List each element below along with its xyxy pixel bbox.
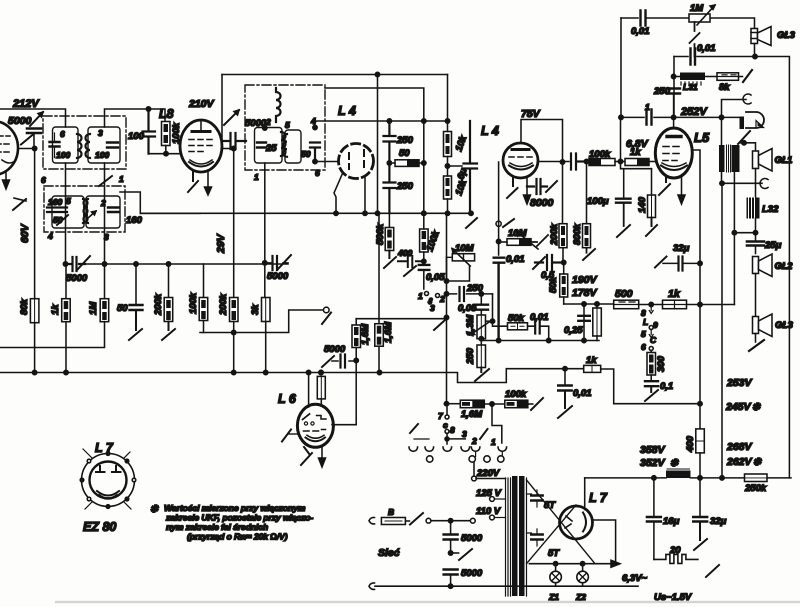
bottom scan edge [55,601,800,603]
svg-text:6: 6 [41,175,46,185]
svg-text:6: 6 [60,129,65,139]
resistor 8k + switch [705,70,752,93]
svg-text:6: 6 [641,342,646,352]
potentiometer 10M (osc) [447,243,475,281]
svg-text:250k: 250k [744,483,767,494]
svg-text:0,25: 0,25 [564,325,583,336]
resistor 1k (horizontal) [639,288,735,309]
resistor 500 (horizontal) [614,288,639,309]
svg-text:1,6M: 1,6M [360,323,371,345]
svg-text:5000: 5000 [8,115,32,127]
coil top (osc) [276,88,281,122]
wire AVC rail [85,263,288,265]
svg-text:Gł.2: Gł.2 [775,261,794,272]
capacitor 0,01 (series) [528,312,549,341]
capacitor 25u [747,240,782,254]
L5 plate to down rail [692,150,700,404]
tube L5 [655,117,692,178]
svg-text:Gł.3: Gł.3 [777,30,796,41]
mains bottom terminal [369,583,375,590]
capacitor 0,01 [494,254,525,341]
tube L4b (75V triode) [503,143,538,178]
speaker Gl.3 (lower) [753,314,773,337]
capacitor 32u (PSU) [693,478,726,550]
L4b cathode leads [507,178,518,198]
tube V1 cathode leads [5,173,7,181]
svg-text:L 4: L 4 [481,124,499,138]
svg-text:1: 1 [491,437,496,447]
wire 1,6M top rail [356,318,446,320]
resistor 0,25 + cap network [564,304,601,341]
svg-text:200k: 200k [153,293,164,316]
capacitor 50 (osc) [310,143,320,162]
cathode network: 100u [587,162,652,238]
svg-text:0,01: 0,01 [697,43,716,54]
svg-text:25: 25 [265,143,277,154]
resistor 10M (pot, horizontal) [496,228,548,249]
capacitor 250 (series) [447,283,493,301]
oscillator box F3 (dash-dot) [245,85,325,170]
L6 leads [308,373,310,408]
coil L32 [747,198,780,219]
resistor 1,6M (vertical 2) [375,213,394,372]
svg-text:✱: ✱ [150,504,159,515]
lamp Z1 [548,564,561,602]
svg-text:5000: 5000 [461,533,483,544]
svg-text:29V: 29V [215,233,227,254]
IF cell 4 [84,196,121,228]
wire AGC return [200,310,324,333]
wire cap/res bottom [149,153,182,155]
resistor 400 (vertical) [685,402,704,478]
capacitor 250 (bottom of column) [384,163,414,213]
svg-text:250: 250 [396,181,414,192]
resistor 3k (vertical) [250,263,270,373]
wire 253V vertical [721,183,723,478]
vertical signal drop [498,162,500,255]
wire pin1 down [264,163,266,263]
wire 75V [521,120,563,224]
resistor 800k (vertical) [572,162,595,261]
svg-text:L 7: L 7 [589,491,608,505]
switch slash on cell2 lead [99,176,112,186]
svg-text:0,05: 0,05 [426,272,445,283]
IF transformer box F1 (dash-dot) [43,116,126,169]
svg-text:100μ: 100μ [587,196,609,207]
svg-text:1M: 1M [88,301,99,315]
svg-text:Z̨1: Z̨1 [548,592,559,602]
resistor L6 grid stopper [317,370,325,406]
L4 leads [334,174,343,214]
svg-text:250: 250 [396,135,414,146]
pickup jack pins 8 L 9 5 C 6 [641,305,658,353]
capacitor 5000 (top-left) [8,112,43,147]
vertical 0,01 feed [620,18,622,117]
svg-text:nym zakresie fal średnich: nym zakresie fal średnich [166,522,268,532]
terminal circle + switch [496,221,501,226]
svg-text:50k: 50k [548,276,559,293]
svg-text:5000: 5000 [66,273,88,284]
wire 29V line [233,149,235,298]
resistor 100k (vertical) [188,264,208,333]
svg-text:L 4: L 4 [338,104,356,118]
wire cell2 down [104,163,106,264]
wire pin6 to L4 [315,161,339,163]
svg-text:L5: L5 [694,130,710,145]
svg-text:352V: 352V [640,457,666,469]
resistor 140 [637,169,657,236]
capacitor 250 (to 252V) [653,86,680,117]
svg-text:L: L [643,317,648,327]
resistor 10k upper [444,75,470,157]
svg-text:32μ: 32μ [710,516,727,527]
band switch assembly [409,404,507,462]
svg-text:1k: 1k [586,355,597,366]
wire F2 secondary out (160) [120,192,200,213]
svg-text:B: B [388,507,394,517]
tube L4 (dashed triode) [339,144,374,179]
resistor 100k (L8 grid leak) [162,122,183,146]
svg-text:6,3V~: 6,3V~ [622,573,648,584]
svg-text:0,01: 0,01 [573,388,592,399]
wire tone second rail [674,57,789,478]
svg-text:5: 5 [285,120,290,130]
svg-text:262V: 262V [726,456,753,468]
wire osc rail [325,88,424,213]
capacitor 16u [647,478,680,560]
choke coil (filter) [666,469,691,478]
wire output row [564,303,614,305]
svg-text:300: 300 [656,355,667,372]
svg-text:3k: 3k [250,304,261,315]
resistor 200k second (vertical) [218,293,238,372]
switch slash [738,131,750,144]
svg-text:L8: L8 [159,107,174,121]
resistor 250k (horizontal) [744,474,767,494]
svg-text:250: 250 [465,347,476,365]
coil L31 [674,73,705,93]
transformer secondary X wiring [527,480,596,564]
capacitor 0,01 (series, top) [631,11,650,38]
svg-text:178V: 178V [572,287,598,299]
svg-text:32μ: 32μ [673,243,690,254]
svg-text:EZ 80: EZ 80 [83,520,116,534]
svg-text:400: 400 [397,248,412,258]
svg-text:1,6M: 1,6M [383,321,394,343]
capacitor 32u (audio) [655,243,700,271]
svg-text:253V: 253V [726,377,753,389]
capacitor 5000 (osc pad, series) [265,255,291,282]
osc cell 6 [283,120,301,163]
L8 cathode leads [188,170,198,192]
wire mains bottom rail [375,585,638,587]
svg-text:1k: 1k [668,288,681,300]
svg-text:5T: 5T [548,548,560,559]
svg-text:100: 100 [95,150,109,160]
svg-text:1: 1 [418,291,423,301]
tube L7 (rectifier) [560,478,593,539]
resistor 200k (vertical) [549,223,567,262]
resistor 80k [19,298,39,372]
svg-text:(przyrząd o Rw= 20k Ω/V): (przyrząd o Rw= 20k Ω/V) [187,532,288,542]
resistor 1,6M (vertical 1) [352,319,371,425]
svg-text:5000: 5000 [267,271,289,282]
switch slash near mid [434,320,445,330]
svg-text:50: 50 [117,303,128,314]
svg-text:L31: L31 [683,82,698,92]
capacitor 5T lower [531,529,560,559]
svg-text:Wartości mierzone przy włączon: Wartości mierzone przy włączonym [164,503,306,513]
resistor 50k (vertical) [548,263,568,305]
svg-text:Sieć: Sieć [378,547,400,559]
svg-text:10M: 10M [455,243,475,254]
potentiometer 1M [689,3,715,57]
resistor 50 (horizontal) [387,148,426,166]
svg-text:c: c [443,420,448,430]
svg-text:6,8V: 6,8V [626,138,649,150]
osc cell 5 [255,128,286,164]
lamp Z2 [575,564,588,602]
svg-text:100k: 100k [505,389,527,400]
svg-text:75V: 75V [521,108,541,120]
svg-text:Z̨2: Z̨2 [575,592,586,602]
svg-text:100k: 100k [188,292,199,314]
dial lamp pins 1 2 3 [418,291,445,313]
resistor 250 (vertical) [465,339,489,381]
svg-text:C: C [650,335,657,345]
svg-text:210V: 210V [188,98,215,110]
resistor 300 (vertical) [647,351,667,376]
svg-text:500: 500 [615,288,633,300]
resistor 1M (vertical) [0,264,109,348]
resistor 1k (horizontal) [625,147,656,166]
svg-text:200k: 200k [218,293,229,316]
svg-text:L32: L32 [762,204,779,215]
wire screen to 29V [222,148,234,150]
speaker Gl.2 [753,254,773,277]
tube L8 [180,120,222,172]
svg-text:125 V: 125 V [476,488,501,499]
socket EZ80 diagram [80,441,136,534]
capacitor 0,05 (below) [419,265,445,289]
svg-text:3: 3 [430,303,435,313]
resistor 200k (vertical) [153,264,175,340]
svg-text:16μ: 16μ [663,516,680,527]
power transformer T2 [476,476,527,596]
capacitor 5000 (mains 2) [444,568,483,586]
resistor 100k (horizontal) [589,149,625,166]
svg-text:2: 2 [100,198,106,208]
wire AF rail [483,340,600,342]
IF transformer box F2 (dash-dot) [44,186,125,232]
tube L6 [297,404,333,447]
wire 358V rail [585,477,791,479]
terminal circle + switch [324,307,330,313]
svg-text:190V: 190V [572,274,598,286]
wire osc switch rail [447,403,461,405]
capacitor 50 [117,264,143,340]
capacitor 5000 (AVC, series) [63,256,90,284]
trimmer capacitor 5000 (L8 anode to osc) [222,110,246,149]
wire cell1 down [65,163,67,264]
svg-text:800k: 800k [572,223,583,245]
resistor 100k (vertical, mixer grid) [420,211,443,263]
svg-text:6: 6 [315,168,320,178]
vertical to L31 node [673,57,675,118]
L7 heater wires [593,520,616,564]
output transformer T1 [719,145,740,172]
svg-text:8k: 8k [719,82,730,93]
capacitor 0,01 (series, second) [691,43,716,65]
svg-text:110 V: 110 V [476,506,501,517]
resistor 50k (horizontal) [493,313,528,330]
svg-text:3: 3 [98,128,103,138]
svg-text:200k: 200k [549,223,560,246]
capacitor 0,01 (bus bypass) [558,367,592,419]
svg-text:50: 50 [399,148,410,159]
capacitor 400 (series left) [397,248,424,276]
svg-text:zakresie UKF, pozostałe przy w: zakresie UKF, pozostałe przy włączo- [165,513,313,523]
svg-text:5T: 5T [544,500,556,511]
capacitor 1 (series on 252V) [645,102,652,125]
svg-text:60V: 60V [19,223,31,243]
note text block [150,503,313,542]
svg-text:220V: 220V [476,468,500,479]
svg-text:✱: ✱ [670,458,679,469]
svg-text:160: 160 [48,197,62,207]
svg-text:1: 1 [254,172,259,182]
svg-text:1: 1 [119,174,124,184]
svg-text:0,01: 0,01 [631,26,650,37]
potentiometer 1,3M (vertical) [465,294,495,341]
svg-text:212V: 212V [12,98,40,110]
svg-text:0,01: 0,01 [506,254,525,265]
capacitor 250 (top of column) [384,121,414,163]
switch slash below rail [466,218,477,228]
resistor 1k (vertical) [50,264,70,373]
L6 grid wire [332,424,356,426]
svg-text:140: 140 [637,196,648,213]
svg-text:50: 50 [301,149,311,159]
IF cell 3 [47,196,88,228]
svg-text:10k: 10k [453,134,469,153]
svg-text:✱: ✱ [753,457,762,468]
svg-text:Gł.1: Gł.1 [775,155,793,166]
resistor 1,6M (horizontal) [460,400,505,420]
switch slash [459,549,472,560]
svg-text:400: 400 [685,435,696,453]
filament wire 6,3V [529,563,612,565]
wire B+ top rail [222,74,448,76]
wire 212V rail [0,109,66,127]
svg-text:3: 3 [104,232,109,242]
svg-text:✱: ✱ [752,402,761,413]
svg-text:5: 5 [66,196,71,206]
L5 cathode leads [659,176,670,195]
svg-text:252V: 252V [680,106,708,118]
secondary bottom wire + jack C [722,172,763,183]
svg-text:5: 5 [641,329,646,339]
resistor 10k lower [444,157,470,213]
wire anode top [221,75,223,142]
plug jack (with triangle) [740,112,765,129]
svg-text:160: 160 [126,215,143,226]
capacitor 5000 (L6 grid) [322,344,356,368]
resistor 100k (horizontal) [505,389,543,410]
capacitor 5T upper [531,490,556,511]
svg-text:8: 8 [450,425,455,435]
main mid rail [140,212,472,214]
resistor 500k (vertical) [375,213,396,268]
svg-text:L 6: L 6 [278,392,297,406]
wire mid row [446,213,448,404]
feedback junction [733,172,735,305]
svg-text:5000: 5000 [324,344,346,355]
vertical B+ left drop [377,75,379,214]
svg-text:358V: 358V [640,444,666,456]
capacitor 6u [448,121,478,213]
svg-text:268V: 268V [726,441,753,453]
headphone jack C (upper) [722,94,752,145]
svg-text:Gł.3: Gł.3 [775,320,794,331]
svg-text:3: 3 [462,429,467,439]
svg-text:8000: 8000 [530,197,554,209]
svg-text:0,1: 0,1 [660,381,673,392]
wire 252V rail [621,116,740,118]
vertical from 0,01 line to grid row [620,117,622,161]
wire pin4 to right [315,121,448,128]
wire plate to coupling [538,161,569,163]
capacitor 5000 (mains 1) [444,521,483,553]
mains terminal + fuse B [369,507,475,525]
ground bus (main) [0,369,584,383]
speaker Gl.1 [753,149,773,172]
svg-text:0,01: 0,01 [530,312,549,323]
switch slash below Gl.3 [749,340,764,351]
capacitor 0,5 (series) + switch [533,255,566,281]
svg-text:100: 100 [56,150,70,160]
capacitor 0,1 [645,375,673,401]
svg-text:5000: 5000 [461,568,483,579]
capacitor 8000 [527,179,557,209]
svg-text:80k: 80k [19,298,30,315]
svg-text:245V: 245V [725,401,752,413]
svg-text:4: 4 [47,231,53,241]
speaker chain vertical [755,169,757,198]
capacitor 0,05 (1,3M top) [458,292,488,315]
svg-text:1M: 1M [690,3,704,14]
capacitor coupling (series) [571,154,588,170]
svg-text:2: 2 [471,436,477,446]
resistor 20 (zigzag) [654,545,719,577]
tube V1 (left edge, cut off) [0,121,18,175]
svg-text:25μ: 25μ [764,240,782,251]
svg-text:10k: 10k [453,178,469,197]
svg-text:500k: 500k [375,223,386,245]
resistor 1k (in bus) [584,355,700,404]
wire 60V line [18,148,35,150]
speaker Gl.3 (top) [751,27,771,57]
svg-text:1,6M: 1,6M [461,409,483,420]
wire tone top rail [621,18,755,29]
capacitor 100 (L8 grid) [128,109,155,154]
svg-text:1k: 1k [50,304,61,315]
IF cell 2 [86,127,121,163]
IF cell 1 [50,127,82,163]
